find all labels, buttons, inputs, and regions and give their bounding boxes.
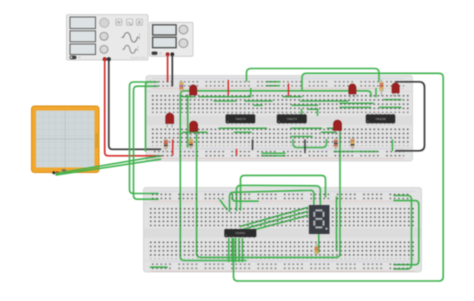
wire green BB2 right U outer (394, 201, 419, 265)
wire black from function generator (109, 60, 161, 150)
wire green below display (318, 234, 320, 252)
breadboard hole grid overlay (150, 80, 415, 269)
IC U2 74HC74 (277, 113, 307, 124)
resistor R5 (351, 137, 355, 150)
LED6 (392, 83, 399, 97)
wire red from function generator (105, 60, 162, 156)
wire red jumper BB1 b (288, 84, 290, 96)
breadboard BB2 (144, 188, 422, 273)
wire red jumper BB1 d (236, 150, 238, 155)
LED1 (190, 85, 197, 99)
wire green diag trio to display (240, 208, 308, 227)
wire black jumper BB1 a (252, 140, 254, 150)
wire green scope probe 2 (56, 159, 161, 175)
breadboard BB1 (146, 76, 413, 162)
resistor R1 (180, 80, 184, 94)
LED4 (334, 120, 342, 135)
wire green nested E (237, 185, 321, 210)
resistor R7 orange on BB2 (315, 244, 319, 257)
svg-text:Function Gen: Function Gen (130, 56, 146, 60)
function generator (67, 15, 149, 62)
IC U3 74HC08 (366, 113, 395, 124)
resistor R2 (164, 137, 168, 151)
wire green big right loop (234, 73, 444, 281)
wire green small diag (220, 200, 227, 210)
svg-text:74HC08: 74HC08 (375, 117, 386, 121)
wire green right of display short (336, 197, 338, 250)
wire green arc A over BB1 (247, 69, 380, 82)
wire black U right of BB1 (396, 82, 425, 151)
resistor R3 (189, 137, 193, 150)
wire green bundle below IC (228, 239, 230, 262)
wire green W2 (187, 95, 189, 147)
svg-text:74HC74: 74HC74 (287, 117, 298, 121)
LED5 (349, 84, 356, 98)
wire black from power supply (171, 55, 173, 86)
wire green W1 long left-bottom run (180, 91, 371, 261)
oscilloscope (32, 106, 100, 174)
wire green G short (232, 195, 258, 202)
svg-text:CD4511: CD4511 (235, 231, 245, 235)
wire green BB1 left edge vertical (146, 82, 153, 151)
wire green scope probe 1 (56, 156, 161, 174)
LED3 (190, 121, 198, 136)
LED2 (166, 113, 174, 128)
IC U1 74HC74 (226, 113, 255, 124)
wire green nested D (241, 175, 326, 210)
wire red jumper BB1 a (227, 81, 229, 95)
7-segment display (309, 205, 330, 234)
resistor R4 (334, 137, 338, 150)
resistor R6 (380, 80, 384, 97)
wire red from power supply (167, 55, 169, 82)
wire green BB2 bottom-left rail jumper (151, 266, 168, 268)
wire black jumper BB1 b (304, 140, 306, 153)
wire green L1 left loop to BB2 rail (130, 82, 159, 194)
IC U4 CD4511 (225, 228, 257, 238)
wire green W3-W4 long loop (197, 129, 340, 258)
wire green BB2 right U inner (394, 196, 412, 269)
wire green BB1 row jumpers (182, 96, 194, 98)
power supply (150, 22, 194, 56)
wire green nested F (230, 190, 314, 211)
svg-text:74HC74: 74HC74 (235, 117, 246, 121)
wire red jumper BB1 c (172, 140, 174, 155)
wire green L2 left loop to BB2 rail2 (134, 86, 159, 199)
